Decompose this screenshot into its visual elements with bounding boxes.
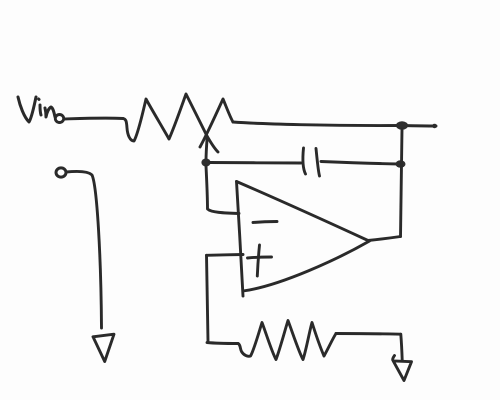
wire end blob	[432, 124, 437, 128]
node output mid (junction)	[396, 160, 406, 168]
wire to R2	[207, 343, 238, 344]
op-amp U1	[237, 182, 369, 241]
ground left (arrow)	[93, 334, 114, 361]
ground right	[393, 356, 412, 381]
wire vertical inverting node	[206, 138, 207, 163]
terminal Vin	[55, 115, 63, 123]
terminal reference	[56, 168, 66, 177]
plus sign	[248, 257, 272, 258]
capacitor C1	[303, 148, 306, 174]
wire C1 right to output node	[321, 162, 399, 165]
wire output to op-amp apex	[368, 237, 401, 241]
node inverting (junction)	[201, 159, 210, 167]
wire output vertical	[401, 129, 403, 237]
wire Vin to R1	[64, 117, 123, 121]
wire inverting node to op-amp minus input	[206, 166, 239, 214]
wire R2 to ground	[336, 332, 401, 336]
wire non-inverting vertical	[207, 255, 209, 341]
label Vin	[18, 97, 55, 122]
wire node to C1 left	[210, 161, 301, 164]
wire plus input	[207, 253, 244, 257]
minus sign	[253, 222, 277, 223]
resistor R1	[123, 94, 218, 152]
resistor R2	[238, 321, 336, 360]
wire reference down	[66, 171, 102, 328]
wire R1 to output node	[233, 122, 436, 126]
node output top (junction)	[396, 121, 408, 130]
